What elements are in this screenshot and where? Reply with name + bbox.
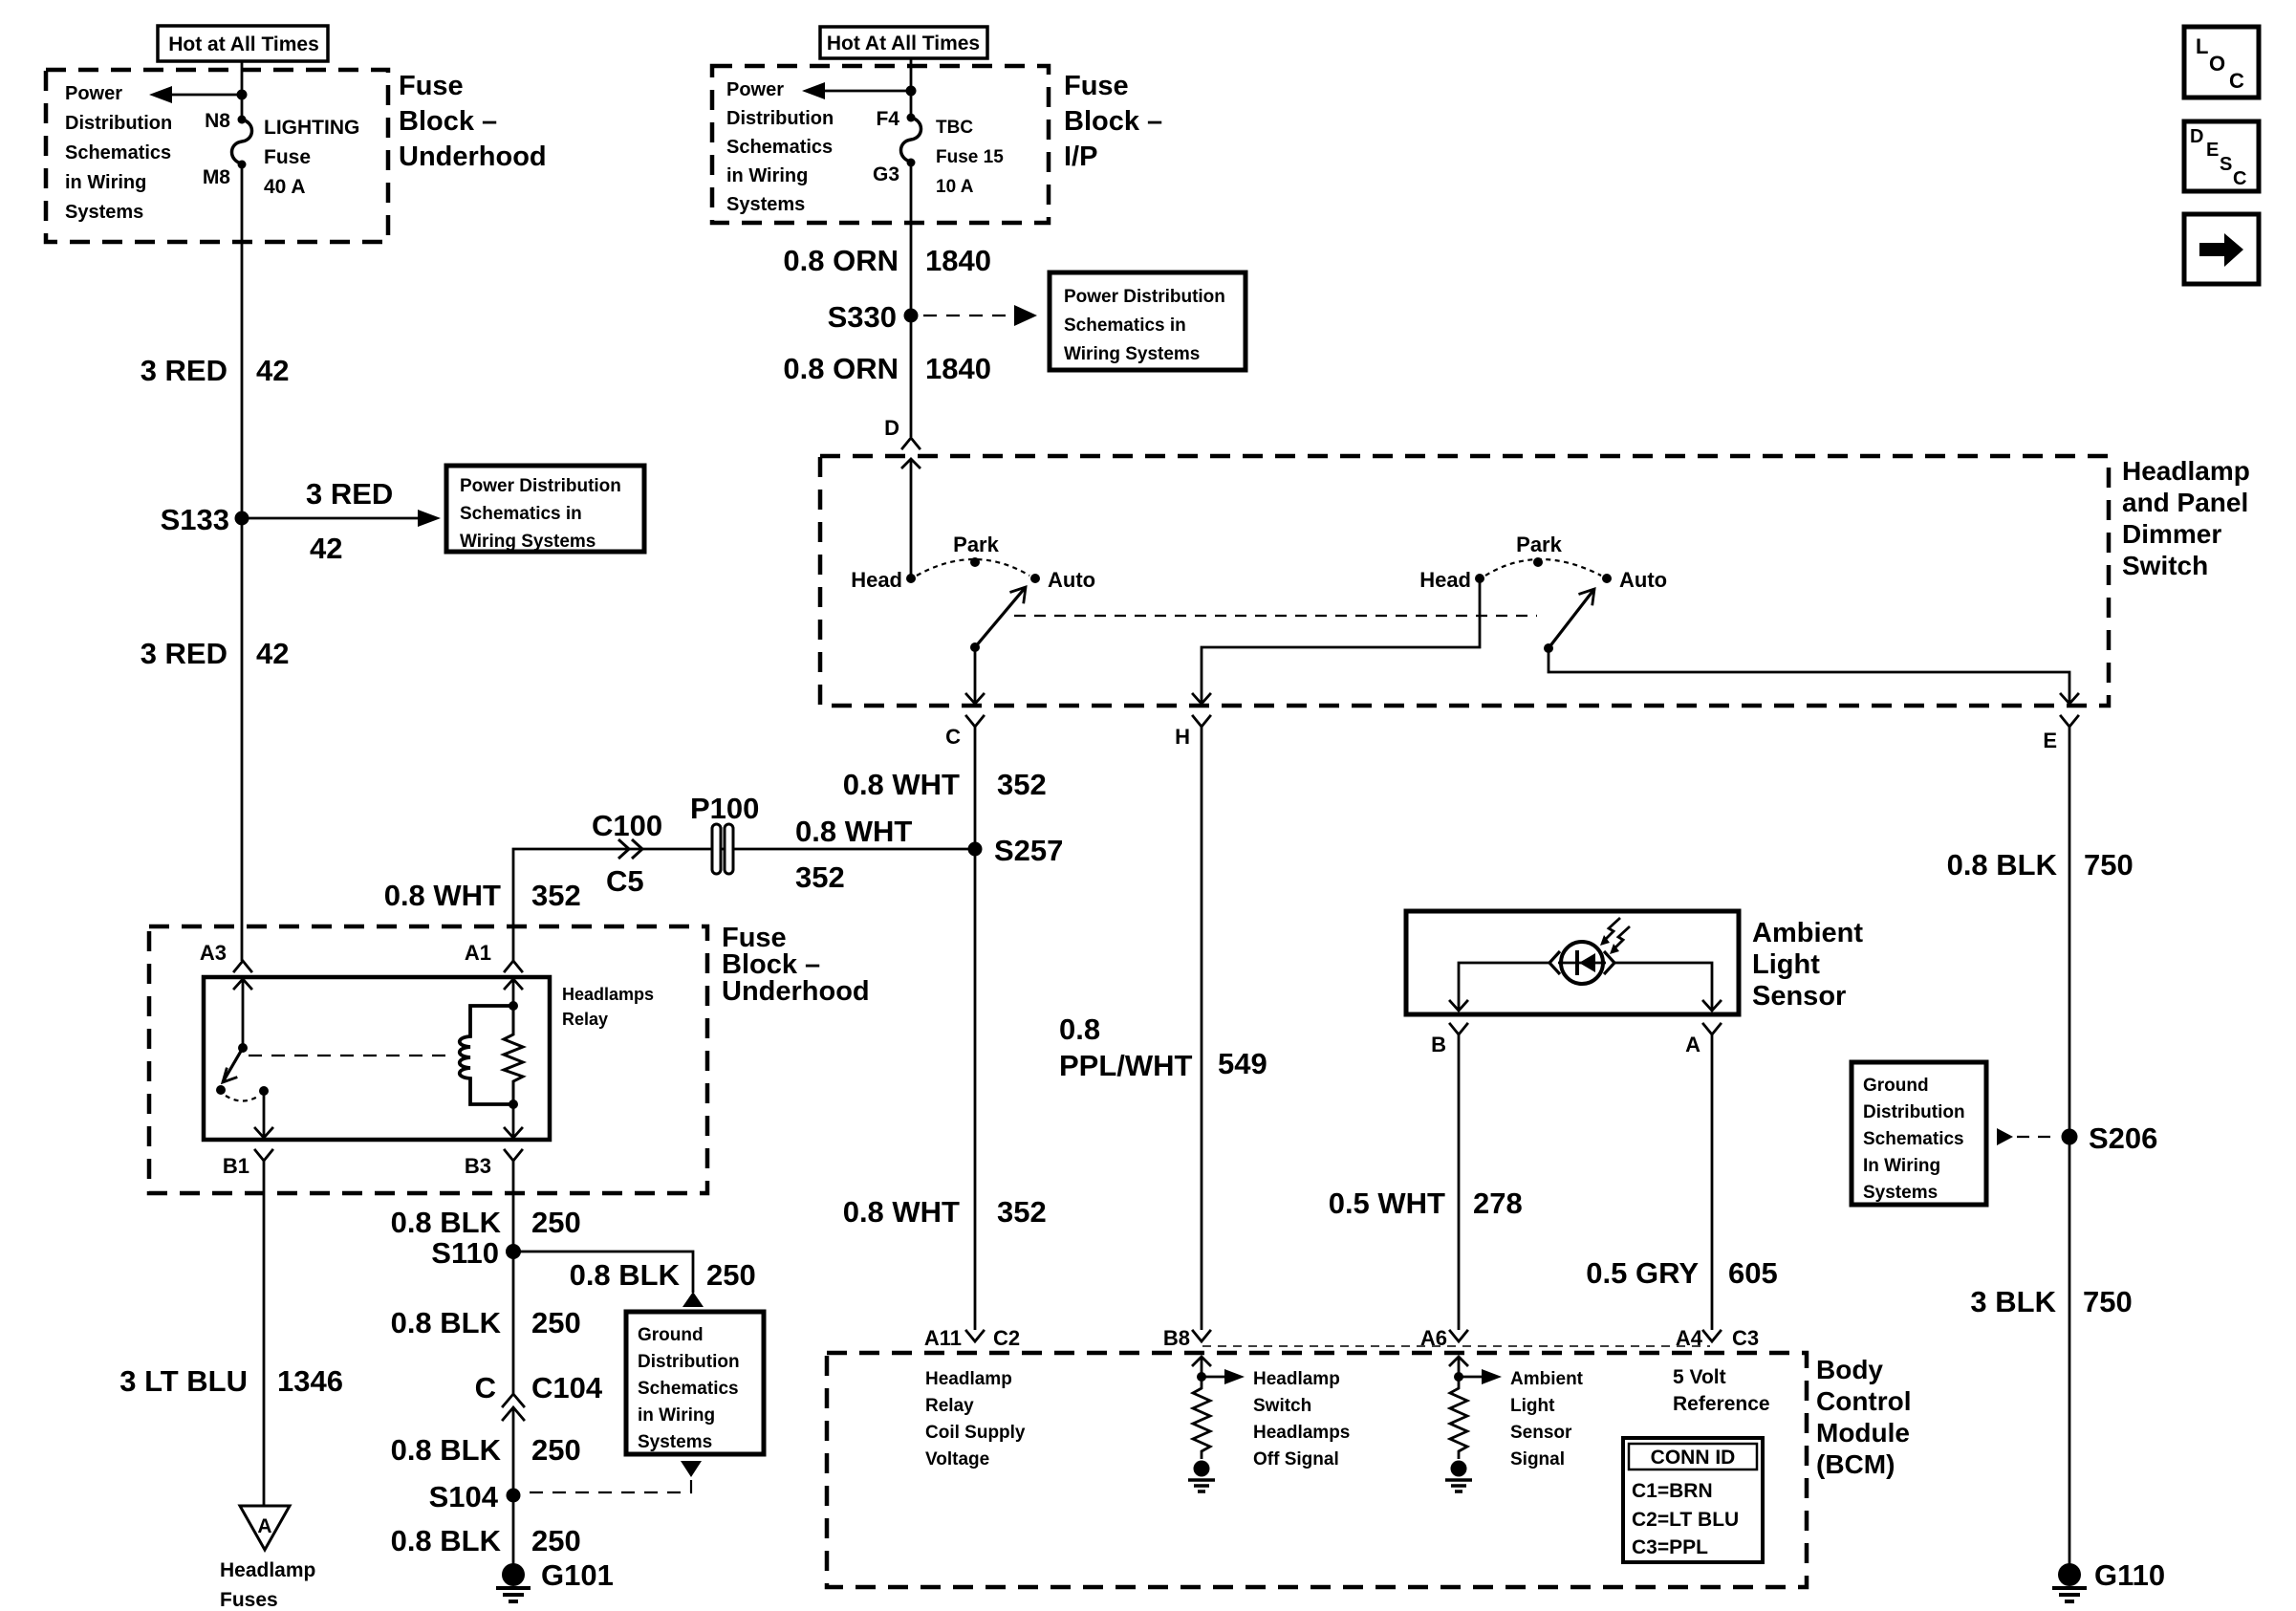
- svg-text:CONN ID: CONN ID: [1651, 1447, 1736, 1469]
- label 0.8 WHT 352 (C upper): [843, 768, 1047, 801]
- wire arrow to power distribution (IP): [802, 82, 911, 99]
- wire S133 branch to power distribution: [242, 477, 441, 565]
- svg-text:Systems: Systems: [638, 1432, 712, 1452]
- svg-text:Coil Supply: Coil Supply: [925, 1423, 1026, 1443]
- node Head contact (right switch): [1419, 568, 1484, 592]
- svg-text:Underhood: Underhood: [722, 976, 870, 1007]
- svg-text:549: 549: [1218, 1047, 1267, 1080]
- relay coil: [460, 1006, 513, 1104]
- pin E connector: [2043, 716, 2078, 752]
- svg-text:D: D: [884, 416, 899, 440]
- svg-text:Schematics in: Schematics in: [1064, 316, 1186, 336]
- wire A to BCM A4: [1711, 1034, 1714, 1330]
- label 0.8 BLK 750: [1947, 848, 2134, 882]
- ground G110: [2052, 1558, 2165, 1601]
- label 0.8 BLK 250 (B3): [391, 1206, 581, 1239]
- svg-text:Power: Power: [65, 83, 122, 104]
- svg-text:1840: 1840: [925, 352, 991, 385]
- svg-text:Park: Park: [1516, 533, 1562, 556]
- node Park contact (right switch): [1516, 533, 1562, 567]
- svg-text:Park: Park: [953, 533, 999, 556]
- svg-text:Hot At All Times: Hot At All Times: [827, 33, 980, 54]
- node relay contact B1: [259, 1086, 269, 1096]
- label Fuse Block - I/P: [1064, 71, 1162, 172]
- svg-text:B1: B1: [223, 1154, 249, 1178]
- note Power Distribution Schematics in Wiring Systems (S133): [446, 466, 644, 552]
- label 0.8 WHT 352 (A11 branch): [843, 1195, 1047, 1229]
- label Body Control Module (BCM): [1816, 1355, 1912, 1479]
- svg-text:3 RED: 3 RED: [141, 637, 227, 670]
- svg-text:10 A: 10 A: [936, 177, 974, 197]
- wire dashed arc Head-Park-Auto (right switch): [1485, 559, 1601, 576]
- icon arrow: [2184, 214, 2259, 284]
- pin A3 connector: [200, 941, 251, 971]
- svg-text:Power: Power: [726, 79, 784, 100]
- fuse block underhood box (dashed): [46, 70, 388, 242]
- pin H connector: [1175, 716, 1210, 749]
- svg-text:3 LT BLU: 3 LT BLU: [119, 1364, 248, 1398]
- ground (B8 internal): [1188, 1461, 1215, 1492]
- svg-text:A4: A4: [1676, 1326, 1703, 1350]
- svg-text:Schematics in: Schematics in: [460, 504, 582, 524]
- svg-text:Ground: Ground: [1863, 1076, 1929, 1096]
- svg-text:F4: F4: [876, 108, 899, 130]
- svg-text:Block –: Block –: [399, 106, 497, 137]
- connector C C104 (inline chevrons): [475, 1371, 603, 1420]
- symbol headlamp fuses triangle A: [240, 1506, 290, 1550]
- wire dashed S104 reference to ground distribution: [525, 1461, 702, 1492]
- pin A connector: [1685, 1024, 1721, 1056]
- node S257: [968, 834, 1064, 867]
- wire S110 to C104: [512, 1252, 515, 1395]
- pin F4: [876, 108, 915, 130]
- pin B1 connector: [223, 1150, 272, 1178]
- label Hot At All Times (middle): [820, 27, 987, 58]
- svg-text:352: 352: [531, 879, 581, 912]
- svg-text:Ground: Ground: [638, 1325, 704, 1345]
- wire arrow ambient light sensor signal: [1459, 1369, 1502, 1384]
- svg-text:C3: C3: [1732, 1326, 1759, 1350]
- icon DESC: [2184, 121, 2259, 191]
- svg-text:C5: C5: [606, 864, 644, 898]
- wire C104 to S104: [512, 1409, 515, 1495]
- svg-text:A3: A3: [200, 941, 227, 965]
- switch arm (right, to Auto): [1549, 589, 1594, 648]
- svg-text:0.8 BLK: 0.8 BLK: [391, 1306, 502, 1339]
- wire sensor to pin B (arrow down): [1450, 963, 1549, 1011]
- headlamp and panel dimmer switch box (dashed): [820, 456, 2109, 706]
- svg-text:250: 250: [531, 1306, 581, 1339]
- svg-text:Relay: Relay: [562, 1010, 608, 1029]
- svg-text:Body: Body: [1816, 1355, 1883, 1384]
- note Power Distribution Schematics in Wiring Systems (underhood fuse block): [65, 83, 172, 223]
- wire S206 to G110: [2069, 1137, 2071, 1566]
- node coil top junction: [509, 1001, 518, 1011]
- svg-text:Hot at All Times: Hot at All Times: [168, 33, 319, 55]
- label 3 RED 42 (lower): [141, 637, 290, 670]
- fuse LIGHTING Fuse 40 A (element): [232, 120, 252, 163]
- label 0.8 BLK 250 (above C104): [391, 1306, 581, 1339]
- svg-text:Headlamp: Headlamp: [925, 1369, 1012, 1389]
- conn id legend box: [1623, 1438, 1763, 1562]
- svg-text:M8: M8: [203, 166, 230, 188]
- svg-text:C: C: [2233, 168, 2246, 189]
- svg-text:Auto: Auto: [1619, 568, 1667, 592]
- resistor (relay suppression): [504, 1006, 523, 1104]
- svg-text:Signal: Signal: [1510, 1449, 1565, 1469]
- label 0.8 PPL/WHT 549: [1059, 1012, 1267, 1082]
- svg-text:1346: 1346: [277, 1364, 343, 1398]
- svg-text:0.8 WHT: 0.8 WHT: [843, 768, 960, 801]
- svg-text:S133: S133: [161, 503, 229, 536]
- svg-text:Fuse 15: Fuse 15: [936, 147, 1004, 167]
- svg-text:Fuse: Fuse: [264, 146, 311, 168]
- svg-text:S257: S257: [994, 834, 1063, 867]
- svg-text:278: 278: [1473, 1186, 1523, 1220]
- pin C connector: [945, 716, 984, 749]
- wire dashed relay actuation link: [249, 1055, 447, 1056]
- svg-text:PPL/WHT: PPL/WHT: [1059, 1049, 1193, 1082]
- svg-text:Systems: Systems: [1863, 1183, 1938, 1203]
- label TBC Fuse 15 10 A: [936, 118, 1004, 197]
- svg-text:C2: C2: [993, 1326, 1020, 1350]
- connector C100 C5 (inline chevrons): [592, 809, 662, 898]
- wire A3 into relay (arrow up): [234, 979, 251, 1048]
- label 0.8 ORN 1840 (lower): [783, 352, 991, 385]
- label 0.8 BLK 250 (above S104): [391, 1433, 581, 1467]
- svg-text:Schematics: Schematics: [726, 137, 833, 158]
- resistor (B8 pull): [1193, 1384, 1210, 1459]
- svg-text:LIGHTING: LIGHTING: [264, 117, 359, 139]
- wire 3 RED 42 from S133 to relay A3: [241, 518, 244, 961]
- svg-text:0.8 BLK: 0.8 BLK: [391, 1433, 502, 1467]
- wire B to BCM A6: [1458, 1034, 1461, 1330]
- wire A1 into relay (arrow up): [505, 979, 522, 1006]
- wire arrow to power distribution (left): [149, 86, 242, 103]
- svg-text:352: 352: [997, 1195, 1047, 1229]
- wire from Hot feed to fuse F4: [910, 58, 913, 118]
- svg-text:S206: S206: [2089, 1121, 2157, 1155]
- body control module box (dashed): [827, 1353, 1807, 1587]
- label 0.5 GRY 605: [1586, 1256, 1777, 1290]
- node IP feed junction: [906, 86, 917, 97]
- switch arm (left, to Auto): [975, 587, 1026, 647]
- wire contact to B1 (arrow down): [255, 1091, 272, 1138]
- node relay contact left: [216, 1085, 226, 1095]
- wire B1 to headlamp fuses: [263, 1161, 266, 1506]
- node feed junction: [237, 90, 248, 100]
- svg-text:in Wiring: in Wiring: [65, 172, 146, 193]
- svg-text:G101: G101: [541, 1558, 614, 1592]
- pin D connector: [884, 416, 920, 448]
- svg-text:Light: Light: [1752, 949, 1820, 980]
- svg-text:B8: B8: [1163, 1326, 1190, 1350]
- label Headlamp and Panel Dimmer Switch: [2122, 456, 2250, 580]
- wire right common to E (arrow down): [1549, 648, 2078, 704]
- node A6 internal junction: [1454, 1372, 1463, 1382]
- wire dashed reference from S330 to power distribution: [923, 305, 1037, 326]
- wire dashed arc relay contacts: [226, 1096, 259, 1101]
- svg-text:in Wiring: in Wiring: [726, 165, 808, 186]
- svg-text:0.5 WHT: 0.5 WHT: [1329, 1186, 1445, 1220]
- svg-text:A11: A11: [924, 1326, 962, 1350]
- label 0.8 ORN 1840 (upper): [783, 244, 991, 277]
- svg-text:0.8 BLK: 0.8 BLK: [1947, 848, 2058, 882]
- svg-text:0.8 BLK: 0.8 BLK: [570, 1258, 681, 1292]
- ambient light sensor box: [1406, 911, 1739, 1014]
- svg-text:Wiring Systems: Wiring Systems: [460, 532, 596, 552]
- pin B connector: [1431, 1024, 1467, 1056]
- svg-text:0.8 BLK: 0.8 BLK: [391, 1524, 502, 1557]
- svg-text:P100: P100: [690, 792, 759, 825]
- node Park contact (left switch): [953, 533, 999, 567]
- svg-text:Auto: Auto: [1048, 568, 1095, 592]
- svg-text:Schematics: Schematics: [1863, 1129, 1964, 1149]
- headlamps relay box: [204, 977, 550, 1140]
- node S133: [161, 503, 249, 536]
- wire coil to B3 (arrow down): [505, 1104, 522, 1138]
- svg-text:Distribution: Distribution: [1863, 1102, 1965, 1122]
- svg-text:Underhood: Underhood: [399, 142, 547, 172]
- node B8 internal junction: [1197, 1372, 1206, 1382]
- note Ground Distribution Schematics In Wiring Systems (right): [1852, 1062, 1986, 1205]
- wire dashed connector grouping line: [1202, 1345, 1710, 1347]
- svg-text:Reference: Reference: [1673, 1393, 1770, 1415]
- svg-text:1840: 1840: [925, 244, 991, 277]
- svg-text:N8: N8: [205, 110, 230, 132]
- svg-text:Relay: Relay: [925, 1396, 974, 1416]
- svg-text:A6: A6: [1420, 1326, 1447, 1350]
- wire S257 to BCM A11: [974, 849, 977, 1330]
- svg-text:in Wiring: in Wiring: [638, 1405, 715, 1426]
- svg-text:Power Distribution: Power Distribution: [460, 476, 621, 496]
- wire C to S257: [974, 727, 977, 849]
- label 3 RED 42 (upper): [141, 354, 290, 387]
- wire from Hot feed to fuse N8: [241, 61, 244, 120]
- wire A6 internal (arrow up): [1450, 1357, 1467, 1384]
- svg-text:Voltage: Voltage: [925, 1449, 989, 1469]
- svg-text:C: C: [2229, 69, 2244, 93]
- wire dashed gang link between switch halves: [1014, 615, 1537, 617]
- svg-text:40 A: 40 A: [264, 176, 306, 198]
- svg-text:Control: Control: [1816, 1386, 1912, 1416]
- pin G3: [873, 159, 916, 186]
- svg-text:250: 250: [531, 1433, 581, 1467]
- svg-text:Off Signal: Off Signal: [1253, 1449, 1339, 1469]
- label 0.5 WHT 278: [1329, 1186, 1523, 1220]
- pin A6 connector: [1420, 1326, 1467, 1350]
- ground (A6 internal): [1445, 1461, 1472, 1492]
- svg-text:Headlamp: Headlamp: [2122, 456, 2250, 486]
- svg-text:5 Volt: 5 Volt: [1673, 1366, 1726, 1388]
- svg-text:Distribution: Distribution: [65, 113, 172, 134]
- svg-text:Fuse: Fuse: [399, 71, 464, 101]
- svg-text:42: 42: [310, 532, 342, 565]
- label 3 LT BLU 1346: [119, 1364, 343, 1398]
- wire D into switch (arrow up): [902, 459, 920, 578]
- label Headlamp Relay Coil Supply Voltage: [925, 1369, 1026, 1469]
- svg-text:Sensor: Sensor: [1510, 1423, 1572, 1443]
- node S110: [431, 1236, 521, 1270]
- label 0.8 BLK 250 (S110 branch): [570, 1258, 756, 1292]
- svg-text:E: E: [2206, 140, 2219, 161]
- label Headlamps Relay: [562, 985, 654, 1029]
- pin A1 connector: [465, 941, 522, 971]
- svg-text:250: 250: [531, 1206, 581, 1239]
- svg-text:Sensor: Sensor: [1752, 981, 1846, 1012]
- wire S257 to relay A1 (horizontal): [513, 849, 975, 961]
- wire S104 to G101: [512, 1495, 515, 1566]
- svg-text:352: 352: [795, 860, 845, 894]
- svg-text:C104: C104: [531, 1371, 603, 1404]
- svg-text:TBC: TBC: [936, 118, 973, 138]
- icon LOC: [2184, 27, 2259, 98]
- svg-text:B3: B3: [465, 1154, 491, 1178]
- svg-text:Head: Head: [851, 568, 902, 592]
- svg-text:I/P: I/P: [1064, 142, 1097, 172]
- svg-text:3 RED: 3 RED: [141, 354, 227, 387]
- note Power Distribution Schematics in Wiring Systems (IP fuse block): [726, 79, 834, 215]
- svg-text:Switch: Switch: [1253, 1396, 1311, 1416]
- svg-text:Headlamps: Headlamps: [1253, 1423, 1350, 1443]
- svg-text:750: 750: [2084, 848, 2134, 882]
- light rays into sensor: [1600, 918, 1630, 954]
- svg-text:Module: Module: [1816, 1418, 1910, 1448]
- svg-text:S104: S104: [429, 1480, 499, 1513]
- fuse TBC Fuse 15 10 A (element): [901, 118, 921, 162]
- svg-text:0.8 BLK: 0.8 BLK: [391, 1206, 502, 1239]
- svg-text:S: S: [2220, 154, 2232, 175]
- node switch common (right): [1544, 643, 1553, 653]
- pin A11 C2 connector: [924, 1326, 1020, 1350]
- svg-text:605: 605: [1728, 1256, 1778, 1290]
- svg-text:250: 250: [706, 1258, 756, 1292]
- wire dashed arc Head-Park-Auto (left switch): [917, 559, 1029, 576]
- switch arm (relay): [223, 1048, 243, 1082]
- label Headlamp Switch Headlamps Off Signal: [1253, 1369, 1350, 1469]
- svg-text:E: E: [2043, 729, 2057, 752]
- svg-text:3 BLK: 3 BLK: [1970, 1285, 2056, 1318]
- svg-text:and Panel: and Panel: [2122, 488, 2248, 517]
- node Auto contact (right switch): [1602, 568, 1667, 592]
- svg-text:Light: Light: [1510, 1396, 1555, 1416]
- wire 0.8 ORN 1840 from S330 to dimmer switch D: [910, 316, 913, 437]
- svg-text:Switch: Switch: [2122, 551, 2208, 580]
- node Head contact (left switch): [851, 568, 916, 592]
- svg-text:Systems: Systems: [65, 202, 143, 223]
- note Power Distribution Schematics in Wiring Systems (S330): [1050, 272, 1245, 370]
- fuse block underhood (relay) box (dashed): [149, 926, 707, 1193]
- svg-text:S330: S330: [828, 300, 897, 334]
- svg-text:250: 250: [531, 1524, 581, 1557]
- svg-text:750: 750: [2083, 1285, 2133, 1318]
- label 0.8 WHT 352 (between P100 and S257): [795, 815, 912, 894]
- wire H to BCM B8: [1201, 727, 1203, 1330]
- svg-text:Headlamps: Headlamps: [562, 985, 654, 1004]
- svg-text:Wiring Systems: Wiring Systems: [1064, 344, 1200, 364]
- svg-text:Headlamp: Headlamp: [1253, 1369, 1340, 1389]
- svg-text:0.8 WHT: 0.8 WHT: [843, 1195, 960, 1229]
- label 0.8 BLK 250 (above G101): [391, 1524, 581, 1557]
- svg-text:42: 42: [256, 637, 289, 670]
- node S330: [828, 300, 919, 334]
- svg-text:G110: G110: [2094, 1558, 2165, 1592]
- svg-text:Ambient: Ambient: [1510, 1369, 1584, 1389]
- node relay switch pivot: [238, 1043, 248, 1053]
- wire E to S206: [2069, 727, 2071, 1137]
- svg-text:A1: A1: [465, 941, 491, 965]
- svg-text:0.8 WHT: 0.8 WHT: [384, 879, 501, 912]
- resistor (A6 pull): [1450, 1384, 1467, 1459]
- photo sensor symbol: [1549, 942, 1614, 984]
- node Auto contact (left switch): [1030, 568, 1095, 592]
- label 5 Volt Reference: [1673, 1366, 1770, 1415]
- svg-text:O: O: [2209, 52, 2225, 76]
- connector P100 (pass through grommet): [690, 792, 759, 874]
- label Fuse Block - Underhood (top): [399, 71, 547, 172]
- svg-text:Distribution: Distribution: [638, 1352, 740, 1372]
- svg-text:G3: G3: [873, 163, 899, 185]
- svg-text:C100: C100: [592, 809, 662, 842]
- note Ground Distribution Schematics in Wiring Systems (left): [626, 1312, 764, 1454]
- svg-text:0.5 GRY: 0.5 GRY: [1586, 1256, 1699, 1290]
- pin M8: [203, 161, 247, 189]
- fuse block IP box (dashed): [712, 66, 1049, 223]
- svg-text:Fuses: Fuses: [220, 1589, 278, 1611]
- svg-text:B: B: [1431, 1033, 1446, 1056]
- svg-text:Block –: Block –: [1064, 106, 1162, 137]
- label 3 BLK 750: [1970, 1285, 2132, 1318]
- wire common to C (arrow down): [966, 647, 984, 704]
- svg-text:42: 42: [256, 354, 289, 387]
- pin A4 C3 connector: [1676, 1326, 1759, 1350]
- svg-text:D: D: [2190, 126, 2203, 147]
- svg-text:Schematics: Schematics: [638, 1379, 739, 1399]
- wire right Head to H (arrow down): [1193, 578, 1480, 704]
- svg-text:C3=PPL: C3=PPL: [1632, 1536, 1708, 1558]
- svg-text:Schematics: Schematics: [65, 142, 171, 163]
- node switch common (left): [970, 642, 980, 652]
- svg-text:(BCM): (BCM): [1816, 1449, 1895, 1479]
- wire S110 branch to ground distribution: [513, 1252, 704, 1307]
- svg-text:0.8 ORN: 0.8 ORN: [783, 244, 899, 277]
- svg-text:Systems: Systems: [726, 194, 805, 215]
- label Ambient Light Sensor: [1752, 918, 1863, 1012]
- svg-text:A: A: [257, 1515, 271, 1537]
- svg-text:Distribution: Distribution: [726, 108, 834, 129]
- wire 0.8 ORN 1840 from fuse G3 to S330: [910, 163, 913, 316]
- svg-text:Headlamp: Headlamp: [220, 1559, 315, 1581]
- svg-text:In Wiring: In Wiring: [1863, 1156, 1940, 1176]
- pin B8 connector: [1163, 1326, 1210, 1350]
- label Hot at All Times (left): [158, 26, 328, 61]
- node coil bottom junction: [509, 1099, 518, 1109]
- label Fuse Block - Underhood (relay): [722, 923, 870, 1007]
- label Ambient Light Sensor Signal: [1510, 1369, 1584, 1469]
- label LIGHTING Fuse 40 A: [264, 117, 359, 198]
- wire B3 to S110: [512, 1161, 515, 1252]
- pin B3 connector: [465, 1150, 522, 1178]
- svg-text:H: H: [1175, 725, 1190, 749]
- svg-text:Head: Head: [1419, 568, 1471, 592]
- label Headlamp Fuses: [220, 1559, 315, 1611]
- label 0.8 WHT 352 (A1 branch): [384, 879, 581, 912]
- wire arrow headlamp switch off signal: [1202, 1369, 1245, 1384]
- svg-text:Power Distribution: Power Distribution: [1064, 287, 1225, 307]
- wire dashed reference to S206: [1997, 1128, 2057, 1145]
- svg-text:A: A: [1685, 1033, 1700, 1056]
- node S104: [429, 1480, 521, 1513]
